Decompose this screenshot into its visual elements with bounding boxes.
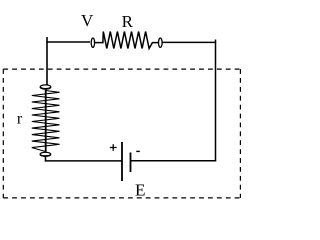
wire: bottom right horizontal (battery to right wire): [131, 160, 217, 162]
wire: bottom left horizontal (r to battery): [45, 160, 122, 162]
resistor r center rod wire: [45, 87, 47, 155]
resistor r spring coil: [32, 91, 60, 152]
resistor r top terminal ellipse: [40, 85, 51, 89]
wire: top-left vertical from stub down to r: [46, 37, 48, 86]
resistor R zigzag: [95, 32, 159, 49]
wire: top horizontal right segment: [163, 41, 217, 43]
svg-text:E: E: [135, 180, 146, 199]
label - (battery negative): [136, 150, 140, 152]
battery positive plate (long): [121, 142, 123, 181]
resistor R right terminal ellipse: [159, 38, 163, 47]
svg-text:r: r: [17, 111, 23, 128]
wire: right vertical: [215, 40, 217, 162]
svg-text:V: V: [81, 11, 94, 30]
resistor R left terminal ellipse: [91, 38, 94, 47]
battery negative plate (short): [130, 153, 132, 173]
wire: top horizontal left segment: [46, 41, 90, 43]
resistor r bottom terminal ellipse: [40, 152, 51, 156]
label + (battery positive): [110, 144, 117, 151]
dashed box (battery internal boundary): [3, 69, 240, 198]
svg-text:R: R: [122, 12, 134, 31]
wire: bottom left vertical stub under r: [45, 156, 47, 162]
